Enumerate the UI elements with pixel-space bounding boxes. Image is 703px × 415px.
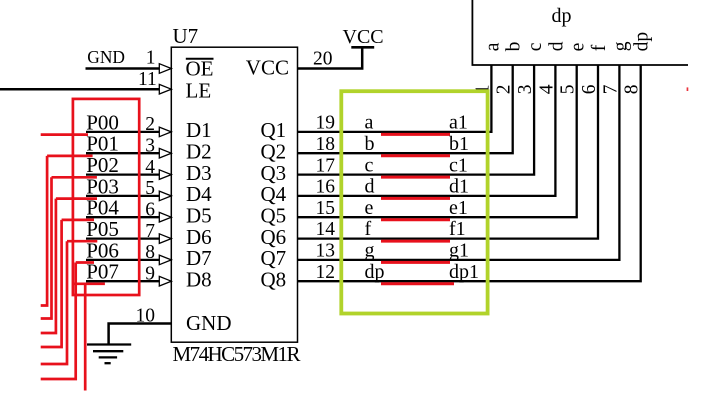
input arrow pin 9 bbox=[159, 276, 171, 286]
wire Q row c to connector pin 3 bbox=[298, 65, 535, 175]
svg-text:20: 20 bbox=[313, 49, 333, 70]
red wire vertical P01 bbox=[41, 156, 47, 306]
svg-text:GND: GND bbox=[87, 47, 125, 67]
svg-text:f: f bbox=[589, 44, 610, 51]
svg-text:Q5: Q5 bbox=[261, 204, 287, 228]
wire pin 20 bbox=[298, 47, 363, 68]
red wire trace P07 bbox=[73, 282, 105, 285]
svg-text:b: b bbox=[365, 133, 375, 155]
svg-text:g1: g1 bbox=[449, 240, 469, 262]
red highlight segment e-e1 bbox=[381, 218, 450, 221]
wire Q row f to connector pin 6 bbox=[298, 65, 599, 239]
svg-text:Q2: Q2 bbox=[261, 140, 287, 164]
stray red dash bbox=[687, 87, 689, 91]
op-amp: latch IC U7 body bbox=[171, 47, 297, 342]
red wire vertical P04 bbox=[41, 220, 62, 347]
svg-text:D8: D8 bbox=[186, 268, 212, 292]
wire Q row a to connector pin 1 bbox=[298, 65, 492, 132]
red wire trace P00 bbox=[41, 133, 88, 136]
wire D row P07 bbox=[86, 280, 160, 282]
red wire trace P06 bbox=[76, 261, 94, 264]
svg-text:1: 1 bbox=[146, 47, 156, 68]
svg-text:5: 5 bbox=[558, 84, 579, 94]
input arrow pin 5 bbox=[159, 191, 171, 201]
svg-text:LE: LE bbox=[186, 79, 212, 103]
red highlight segment c-c1 bbox=[381, 176, 450, 179]
connector box (display), left edge bbox=[471, 0, 473, 65]
input arrow pin 4 bbox=[159, 170, 171, 180]
power symbol VCC bar bbox=[351, 46, 374, 49]
wire Q row g to connector pin 7 bbox=[298, 65, 620, 260]
svg-text:OE: OE bbox=[186, 56, 214, 80]
svg-text:d1: d1 bbox=[449, 176, 469, 198]
svg-text:15: 15 bbox=[316, 198, 336, 219]
red wire trace P01 bbox=[47, 155, 93, 158]
red highlight rectangle around P00-P07 bbox=[73, 99, 139, 295]
svg-text:U7: U7 bbox=[173, 24, 199, 48]
svg-text:c1: c1 bbox=[449, 154, 468, 176]
svg-text:11: 11 bbox=[138, 69, 157, 90]
svg-text:e1: e1 bbox=[449, 197, 468, 219]
wire pin 1 bbox=[86, 67, 161, 70]
wire Q row d to connector pin 4 bbox=[298, 65, 556, 196]
wire D row P00 bbox=[86, 131, 160, 133]
svg-text:2: 2 bbox=[494, 84, 515, 94]
svg-text:a1: a1 bbox=[449, 112, 468, 134]
wire D row P04 bbox=[86, 216, 160, 218]
svg-text:GND: GND bbox=[186, 311, 232, 335]
red wire vertical P03 bbox=[41, 199, 56, 333]
input arrow pin 1 bbox=[159, 64, 171, 74]
red wire vertical P06 bbox=[41, 263, 76, 380]
red wire vertical P05 bbox=[41, 241, 67, 364]
svg-text:d: d bbox=[365, 176, 375, 198]
wire D row P02 bbox=[86, 173, 160, 175]
svg-text:dp: dp bbox=[632, 32, 653, 52]
input arrow pin 8 bbox=[159, 255, 171, 265]
svg-text:b1: b1 bbox=[449, 133, 469, 155]
wire pin 11 bbox=[0, 88, 160, 91]
wire Q row e to connector pin 5 bbox=[298, 65, 577, 217]
svg-text:D2: D2 bbox=[186, 140, 212, 164]
wire D row P06 bbox=[86, 259, 160, 261]
red wire vertical P02 bbox=[41, 177, 52, 318]
red wire trace P03 bbox=[56, 197, 97, 200]
input arrow pin 3 bbox=[159, 148, 171, 158]
red wire trace P05 bbox=[67, 240, 97, 243]
wire D row P03 bbox=[86, 195, 160, 197]
svg-text:c: c bbox=[365, 154, 374, 176]
svg-text:12: 12 bbox=[316, 262, 336, 283]
red highlight segment f-f1 bbox=[381, 240, 450, 243]
red wire vertical P07 bbox=[84, 284, 87, 391]
svg-text:g: g bbox=[610, 41, 631, 51]
input arrow pin 7 bbox=[159, 234, 171, 244]
red wire trace P04 bbox=[62, 219, 94, 222]
svg-text:6: 6 bbox=[579, 84, 600, 94]
svg-text:a: a bbox=[365, 112, 374, 134]
svg-text:e: e bbox=[365, 197, 374, 219]
ground bbox=[87, 345, 131, 364]
svg-text:VCC: VCC bbox=[246, 56, 289, 80]
red highlight segment g-g1 bbox=[381, 261, 450, 264]
svg-text:f1: f1 bbox=[449, 218, 466, 240]
pin name OE (active low) bbox=[186, 56, 214, 80]
wire pin 10 bbox=[109, 324, 172, 345]
input arrow pin 2 bbox=[159, 127, 171, 137]
svg-text:g: g bbox=[365, 240, 375, 262]
wire Q row dp to connector pin 8 bbox=[298, 65, 641, 281]
red wire trace P02 bbox=[52, 176, 97, 179]
svg-text:a: a bbox=[482, 42, 503, 51]
svg-text:D5: D5 bbox=[186, 204, 212, 228]
svg-text:19: 19 bbox=[316, 113, 336, 134]
wire D row P05 bbox=[86, 237, 160, 239]
red highlight segment b-b1 bbox=[381, 154, 450, 157]
svg-text:14: 14 bbox=[316, 219, 336, 240]
svg-text:8: 8 bbox=[622, 84, 643, 94]
red highlight segment dp-dp1 bbox=[381, 282, 454, 285]
svg-text:4: 4 bbox=[536, 84, 557, 94]
svg-text:16: 16 bbox=[316, 177, 336, 198]
svg-text:VCC: VCC bbox=[343, 26, 384, 48]
svg-text:dp: dp bbox=[552, 5, 572, 27]
input arrow pin 6 bbox=[159, 212, 171, 222]
green highlight box bbox=[341, 91, 487, 313]
svg-text:f: f bbox=[365, 218, 372, 240]
wire Q row b to connector pin 2 bbox=[298, 65, 513, 153]
svg-text:dp: dp bbox=[365, 261, 385, 283]
svg-text:b: b bbox=[504, 42, 525, 52]
svg-text:P01: P01 bbox=[86, 132, 119, 156]
svg-text:7: 7 bbox=[600, 84, 621, 94]
svg-text:Q8: Q8 bbox=[261, 268, 287, 292]
connector box bottom edge bbox=[472, 64, 689, 66]
svg-text:dp1: dp1 bbox=[449, 261, 479, 283]
svg-text:e: e bbox=[568, 43, 589, 52]
svg-text:17: 17 bbox=[316, 155, 336, 176]
svg-text:c: c bbox=[525, 42, 546, 51]
input arrow pin 11 bbox=[159, 84, 171, 94]
svg-text:M74HC573M1R: M74HC573M1R bbox=[173, 342, 301, 366]
wire D row P01 bbox=[86, 152, 160, 154]
svg-text:d: d bbox=[546, 41, 567, 51]
red highlight segment a-a1 bbox=[381, 133, 450, 136]
svg-text:18: 18 bbox=[316, 134, 336, 155]
svg-text:13: 13 bbox=[316, 241, 336, 262]
svg-text:3: 3 bbox=[515, 84, 536, 94]
red highlight segment d-d1 bbox=[381, 197, 450, 200]
